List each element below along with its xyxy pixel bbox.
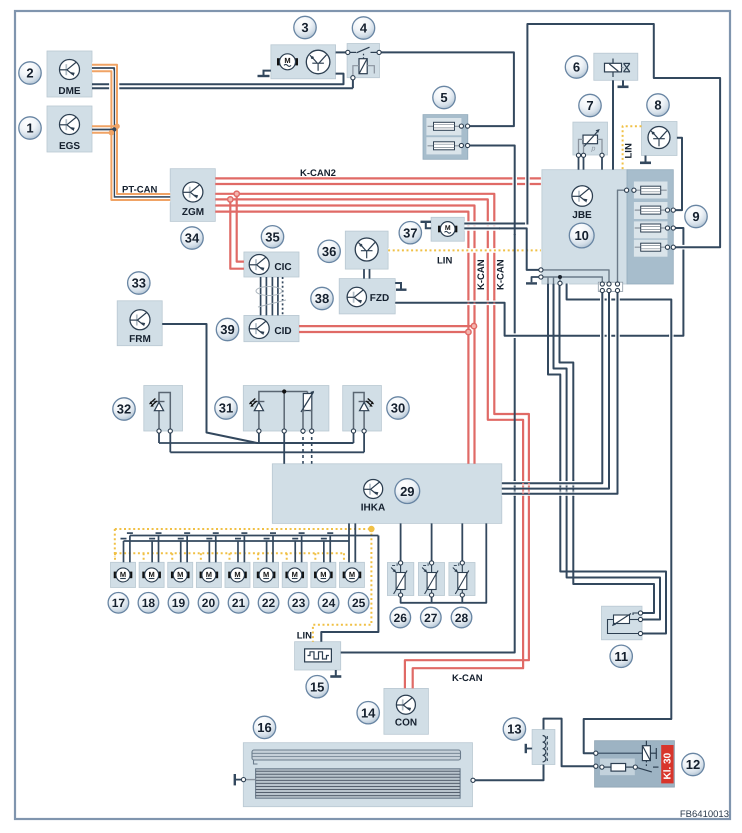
ECU box ZGM (34) <box>170 169 215 222</box>
ECU box FRM (33) <box>117 301 162 346</box>
CID icon and label <box>249 319 269 339</box>
wire JBE to IHKA c <box>502 291 618 494</box>
wire motor comb upper <box>130 535 379 537</box>
wire box32 right drop <box>169 431 171 452</box>
wire K-CAN red ZGM to CON b <box>215 199 523 688</box>
svg-text:FZD: FZD <box>370 293 389 304</box>
wire JBE to IHKA b <box>502 291 609 489</box>
svg-text:CON: CON <box>395 718 417 729</box>
item number ball 30 <box>387 397 409 419</box>
wire box31 centre drop to IHKA <box>283 431 285 464</box>
wire defroster to coil 13 <box>473 765 544 781</box>
svg-text:27: 27 <box>424 611 438 625</box>
svg-text:34: 34 <box>185 231 200 246</box>
stepper motor icons 17-25 <box>114 568 133 582</box>
svg-text:23: 23 <box>292 596 306 610</box>
item number ball 20 <box>198 593 219 614</box>
switch-light box 30 <box>343 386 382 432</box>
svg-text:M: M <box>292 570 298 579</box>
wire JBE to relay module 12 <box>567 284 672 754</box>
FZD icon and label <box>347 287 366 306</box>
ECU box DME (2) <box>47 51 92 97</box>
wire K-CAN red ZGM to CON a <box>215 194 529 689</box>
wire sensor 7 to JBE b <box>583 156 585 170</box>
wire IHKA to sensor 27 <box>431 523 433 563</box>
item number ball 23 <box>288 593 309 614</box>
item number ball 33 <box>128 272 150 294</box>
antenna icon box 36 <box>355 238 378 261</box>
svg-text:FB6410013: FB6410013 <box>680 809 729 820</box>
IHKA icon and label <box>364 480 383 499</box>
ground FZD <box>395 283 401 289</box>
svg-text:19: 19 <box>172 596 186 610</box>
svg-text:6: 6 <box>573 60 580 75</box>
CIC icon and label <box>249 255 269 275</box>
relay box 4 <box>347 44 379 78</box>
wire DME to blower unit 3 <box>92 74 344 85</box>
ground box 8 <box>645 156 647 163</box>
svg-text:15: 15 <box>310 679 324 694</box>
item number ball 31 <box>215 397 237 419</box>
JBE bottom connector block <box>598 282 622 291</box>
ZGM icon and label <box>183 182 203 202</box>
wire relay 4 to fuse 5a <box>379 52 514 126</box>
wire fan 37 to JBE left terminal <box>464 226 500 231</box>
wire PT-CAN blue <box>92 68 170 197</box>
item number ball 28 <box>451 607 472 628</box>
svg-text:37: 37 <box>403 225 417 240</box>
item number ball 21 <box>228 593 249 614</box>
item number ball 2 <box>19 62 41 84</box>
crossing dots FZD wire <box>467 299 469 306</box>
Kl. 30 red label <box>661 745 673 783</box>
relay module box 12 with Kl.30 <box>595 741 675 787</box>
svg-text:21: 21 <box>232 596 246 610</box>
wire K-CAN2 red 2 <box>215 183 541 185</box>
ground box 37 <box>426 223 431 228</box>
valve box 6 <box>594 53 638 80</box>
solenoid valve icon box 6 <box>605 59 631 78</box>
item number ball 8 <box>647 94 669 116</box>
svg-text:28: 28 <box>455 611 469 625</box>
wire PT-CAN orange 1 <box>92 65 170 194</box>
svg-text:M: M <box>148 570 154 579</box>
item number ball 24 <box>318 593 339 614</box>
item number ball 26 <box>390 607 411 628</box>
wire box31 resistor drop b <box>311 431 313 464</box>
item number ball 11 <box>610 645 632 667</box>
wire box31 resistor drop a <box>302 431 304 464</box>
ECU box EGS (1) <box>47 106 92 152</box>
wire lamp bus 2 <box>170 451 364 453</box>
ECU icon EGS <box>60 115 80 135</box>
svg-text:4: 4 <box>360 21 368 36</box>
switch unit box 31 <box>243 386 329 432</box>
svg-text:1: 1 <box>26 121 33 136</box>
svg-text:5: 5 <box>440 90 447 105</box>
wire K-CAN red CID b <box>299 331 468 333</box>
svg-text:39: 39 <box>220 322 234 337</box>
svg-text:M: M <box>263 570 269 579</box>
svg-text:p: p <box>591 146 596 153</box>
svg-text:25: 25 <box>352 596 366 610</box>
svg-text:M: M <box>177 570 183 579</box>
wire K-CAN red branch to CIC a <box>237 194 244 262</box>
wire LIN box8 to JBE <box>623 126 642 170</box>
svg-text:12: 12 <box>686 757 700 772</box>
wire box 8 to fuse 9b <box>673 138 682 210</box>
svg-text:K-CAN: K-CAN <box>452 673 483 684</box>
svg-text:16: 16 <box>257 720 271 735</box>
solar/rain sensor icon box 8 <box>648 127 670 149</box>
item number ball 5 <box>433 86 455 108</box>
wire blower unit 3 to relay 4 switch <box>336 51 348 53</box>
item number ball 12 <box>682 753 704 775</box>
wire sensor return bus <box>401 523 487 602</box>
item number ball 16 <box>253 716 275 738</box>
svg-text:EGS: EGS <box>59 141 80 152</box>
svg-text:M: M <box>284 56 290 65</box>
svg-text:CIC: CIC <box>274 262 291 273</box>
svg-text:3: 3 <box>301 20 308 35</box>
sensor box 8 <box>642 122 678 156</box>
svg-text:29: 29 <box>400 484 414 499</box>
temperature sensor icons 26-28 <box>391 563 407 595</box>
svg-text:38: 38 <box>315 291 329 306</box>
JBE internal distribution wires <box>541 270 609 284</box>
item number ball 34 <box>181 227 203 249</box>
wire FRM to lamp bus <box>162 324 353 443</box>
svg-text:17: 17 <box>112 596 126 610</box>
item number ball 36 <box>318 240 340 262</box>
svg-text:LIN: LIN <box>624 143 635 158</box>
svg-text:CID: CID <box>274 326 291 337</box>
item number ball 7 <box>579 94 601 116</box>
svg-text:K-CAN: K-CAN <box>476 259 487 290</box>
wire IHKA to motor 25 a <box>348 523 350 562</box>
wire K-CAN red ZGM to IHKA b <box>215 212 468 464</box>
signal module box 15 <box>295 642 341 670</box>
defroster left connector <box>234 774 236 785</box>
wire box36 to FZD b <box>369 269 371 279</box>
wire motor comb lower <box>124 540 350 542</box>
svg-text:18: 18 <box>142 596 156 610</box>
wire K-CAN red branch to CIC b <box>230 199 244 268</box>
svg-text:9: 9 <box>692 209 699 224</box>
wire IHKA to sensor 26 <box>400 523 402 563</box>
wire box32 left drop <box>158 431 160 443</box>
wire fuse 9a feed <box>618 190 627 283</box>
blower resistor icon box 11 <box>608 613 643 634</box>
wire EGS PT-CAN orange 1 <box>92 125 117 127</box>
choke coil icon box 13 <box>543 736 546 762</box>
wire fuse 5b to signal module 15 <box>468 146 515 236</box>
box 13 left connector <box>525 744 527 753</box>
stepper motor boxes 17-25 <box>111 562 136 587</box>
ECU box CIC (35) <box>244 252 299 277</box>
wire box30 right drop <box>363 431 365 452</box>
LED icon box 32 <box>159 393 170 432</box>
wire LIN motor weave <box>115 552 344 554</box>
fan icon box 37 <box>438 222 457 237</box>
ECU icon DME <box>60 60 80 80</box>
wire JBE to box11 c <box>560 284 655 613</box>
wire EGS PT-CAN blue <box>92 129 114 131</box>
item number ball 27 <box>421 607 442 628</box>
svg-text:M: M <box>206 570 212 579</box>
svg-text:14: 14 <box>361 705 376 720</box>
defroster element box 16 <box>252 750 461 798</box>
wire fan 37 to fuse 9d <box>464 221 500 226</box>
wire IHKA to motor 25 b <box>354 523 356 562</box>
wire box36 to FZD a <box>363 269 365 279</box>
ground box 6 <box>622 80 624 87</box>
relay and fuse icons box 12 <box>595 741 659 772</box>
svg-text:36: 36 <box>322 244 336 259</box>
svg-text:PT-CAN: PT-CAN <box>122 185 158 196</box>
pressure sensor icon box 7 <box>579 129 603 155</box>
item number ball 13 <box>503 718 525 740</box>
svg-text:22: 22 <box>262 596 276 610</box>
ECU box CON (14) <box>384 688 429 734</box>
wire LIN box36 to JBE <box>388 248 541 253</box>
relay icon box 4 <box>350 47 377 75</box>
svg-text:K-CAN2: K-CAN2 <box>300 168 336 179</box>
svg-text:33: 33 <box>132 276 146 291</box>
svg-text:35: 35 <box>265 229 279 244</box>
blower unit box 3 <box>271 45 336 79</box>
svg-text:24: 24 <box>322 596 336 610</box>
item number ball 6 <box>565 56 587 78</box>
LED and resistor icons box 31 <box>259 392 308 402</box>
JBE icon and label <box>572 186 593 207</box>
wire LIN IHKA to signal module 15 <box>313 529 372 642</box>
crossing dots IHKA feed band <box>514 480 516 497</box>
ECU box FZD (38) <box>339 279 395 314</box>
svg-text:FRM: FRM <box>129 334 151 345</box>
ground box 3 <box>264 71 271 76</box>
wire K-CAN2 red 1 <box>215 177 541 179</box>
CON icon and label <box>396 695 415 714</box>
rear window defroster box 16 <box>243 743 472 807</box>
wire IHKA to sensor 28 <box>461 523 463 563</box>
ground box 15 <box>335 670 337 677</box>
svg-text:Kl. 30: Kl. 30 <box>662 752 673 779</box>
item number ball 25 <box>348 593 369 614</box>
wire DME to relay 4 coil <box>92 87 353 89</box>
item number ball 15 <box>306 676 328 698</box>
square wave icon box 15 <box>305 649 332 662</box>
svg-text:DME: DME <box>58 86 81 97</box>
fuse panel 9 <box>627 170 673 284</box>
svg-text:13: 13 <box>507 722 521 737</box>
ECU box CID (39) <box>244 315 299 341</box>
svg-text:20: 20 <box>202 596 216 610</box>
item number ball 38 <box>311 287 333 309</box>
svg-text:ZGM: ZGM <box>182 207 204 218</box>
wire JBE to box11 a <box>548 284 666 634</box>
wire sensor 7 to JBE a <box>578 156 580 170</box>
item number ball 4 <box>352 17 374 39</box>
wire box30 left drop <box>353 431 355 443</box>
item number ball 29 <box>395 479 420 504</box>
choke coil box 13 <box>532 730 555 765</box>
svg-text:M: M <box>234 570 240 579</box>
svg-text:M: M <box>320 570 326 579</box>
svg-text:26: 26 <box>394 611 408 625</box>
item number ball 19 <box>168 593 189 614</box>
item number ball 10 <box>569 223 594 248</box>
K-CAN junction dots <box>234 191 239 196</box>
svg-text:K-CAN: K-CAN <box>496 259 507 290</box>
item number ball 37 <box>399 222 421 244</box>
fuse icons panel 9 <box>635 186 667 194</box>
fuse icons box 5 <box>428 122 461 130</box>
wire LIN IHKA to motors top <box>115 528 372 530</box>
wire JBE to box11 b <box>554 284 661 620</box>
wire comb to signal module 15 <box>321 536 378 642</box>
wire sensor 7 to JBE c <box>601 156 603 170</box>
pressure sensor box 7 <box>573 122 608 155</box>
wire FZD to fuse 9c <box>395 228 683 336</box>
wire JBE to IHKA a <box>502 291 603 484</box>
svg-text:30: 30 <box>391 401 405 416</box>
JBE terminals <box>539 268 543 272</box>
wire coil 13 to relay module 12 <box>544 719 595 767</box>
svg-text:8: 8 <box>654 98 661 113</box>
item number ball 3 <box>294 16 316 38</box>
wire box31 left drop <box>258 431 260 443</box>
svg-text:10: 10 <box>574 228 588 243</box>
svg-text:LIN: LIN <box>437 256 452 267</box>
crossing dots JBE-relay wire <box>601 296 603 303</box>
item number ball 39 <box>216 318 238 340</box>
temperature sensor boxes 26-28 <box>387 563 413 596</box>
wire K-CAN red CID a <box>299 325 474 327</box>
svg-text:LIN: LIN <box>297 631 312 642</box>
antenna unit box 36 <box>345 231 388 269</box>
switch-light box 32 <box>144 386 183 432</box>
svg-text:11: 11 <box>614 649 628 664</box>
item number ball 17 <box>108 593 129 614</box>
svg-text:JBE: JBE <box>572 210 592 221</box>
wire EGS PT-CAN orange 2 <box>92 132 111 134</box>
LED icon box 30 <box>354 393 365 432</box>
junction box electronics JBE (10) <box>542 170 627 284</box>
blower motor icon box 3 <box>277 54 298 70</box>
item number ball 32 <box>113 398 135 420</box>
svg-text:2: 2 <box>26 66 33 81</box>
svg-text:M: M <box>349 570 355 579</box>
fan clutch icon box 3 <box>306 50 330 74</box>
item number ball 22 <box>258 593 279 614</box>
item number ball 18 <box>138 593 159 614</box>
item number ball 35 <box>261 226 283 248</box>
CIC to CID media lines <box>260 277 262 315</box>
svg-text:31: 31 <box>219 401 233 416</box>
fan box 37 <box>431 217 464 241</box>
JBE ground hook <box>532 277 541 282</box>
svg-text:7: 7 <box>586 98 593 113</box>
item number ball 1 <box>19 117 41 139</box>
wire PT-CAN orange 2 <box>92 71 170 200</box>
wire valve 6 to JBE <box>612 80 614 169</box>
fuse box 5 <box>423 115 468 160</box>
item number ball 14 <box>357 702 379 724</box>
wire K-CAN red ZGM to IHKA a <box>215 206 474 464</box>
svg-text:32: 32 <box>117 402 131 417</box>
svg-text:IHKA: IHKA <box>361 503 385 514</box>
FRM icon and label <box>130 310 150 330</box>
ECU box IHKA (29) <box>272 464 502 524</box>
blower resistor box 11 <box>602 606 643 640</box>
svg-text:M: M <box>120 570 126 579</box>
item number ball 9 <box>685 205 707 227</box>
